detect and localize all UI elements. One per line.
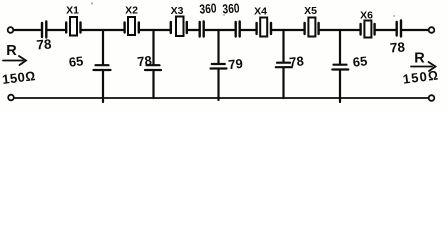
svg-text:X5: X5 [304, 5, 317, 17]
shunt capacitor 79pF (C6) [211, 64, 227, 69]
wire: C3 down to ground rail [152, 71, 154, 98]
svg-text:R: R [414, 51, 425, 67]
wire: C5 to X4 [241, 29, 255, 31]
capacitor C4 360pF (series) [200, 22, 204, 37]
capacitor C9 78pF (series, right) [397, 21, 401, 37]
ground rail wire (bottom) [14, 97, 428, 99]
crystal X1 [66, 17, 80, 36]
svg-text:X1: X1 [66, 5, 79, 17]
source resistance annotation R 150 ohm (left) [1, 43, 36, 87]
scan specks [91, 3, 395, 17]
svg-text:360: 360 [199, 0, 217, 16]
ground terminal (right, bottom) [429, 95, 435, 101]
wire: C1 to X1 [48, 29, 65, 31]
wire: X1 to X2 (junction A at x=103) [82, 29, 123, 31]
svg-text:150Ω: 150Ω [1, 68, 36, 87]
wire: X5 to X6 (junction E at x=340) [320, 29, 359, 31]
wire: junction D down to C7 shunt [282, 30, 284, 62]
wire: junction A down to C2 shunt [102, 30, 104, 64]
svg-text:X3: X3 [171, 5, 184, 17]
wire: X6 to C9 [376, 29, 395, 31]
shunt capacitor 78pF (C7) [276, 63, 292, 67]
crystal X2 [125, 17, 139, 35]
svg-text:R: R [6, 43, 17, 59]
svg-text:78: 78 [389, 39, 406, 55]
svg-text:X2: X2 [125, 5, 138, 17]
ground terminal (left, bottom) [8, 95, 14, 101]
wire: C6 down to ground rail [217, 70, 219, 101]
shunt capacitor 65pF (C8) [332, 65, 348, 70]
wire: C8 down to ground rail [339, 71, 341, 103]
wire: junction C down to C6 shunt [217, 30, 219, 63]
wire: C9 to output terminal [403, 29, 428, 31]
crystal X4 [257, 18, 271, 37]
shunt capacitor 65pF (C2) [94, 65, 111, 70]
svg-text:79: 79 [228, 56, 244, 72]
input terminal (left, top) [8, 27, 14, 33]
wire: junction E down to C8 shunt [339, 30, 341, 64]
wire: input terminal to C1 [14, 29, 40, 31]
svg-text:X4: X4 [254, 6, 267, 18]
shunt capacitor 78pF (C3) [145, 65, 161, 70]
wire: X3 to C4 [188, 29, 198, 31]
svg-text:78: 78 [36, 36, 53, 52]
svg-text:360: 360 [222, 0, 240, 16]
wire: X4 to X5 (junction D at x=283.5) [273, 29, 304, 31]
wire: C2 down to ground rail [102, 71, 104, 102]
output terminal (right, top) [429, 27, 435, 33]
svg-text:150Ω: 150Ω [402, 67, 440, 86]
svg-text:78: 78 [137, 53, 153, 69]
svg-text:X6: X6 [360, 10, 373, 22]
svg-text:65: 65 [68, 53, 84, 69]
wire: junction B down to C3 shunt [152, 30, 154, 64]
wire: X2 to X3 (junction B at x=153.5) [140, 29, 169, 31]
crystal X3 [171, 17, 187, 37]
load resistance annotation R 150 ohm (right) [402, 51, 440, 87]
crystal X5 [305, 18, 319, 37]
svg-text:65: 65 [352, 53, 368, 69]
svg-text:78: 78 [289, 53, 305, 69]
capacitor C5 360pF (series) [236, 22, 240, 37]
wire: C4 to C5 (junction C at x=218.5) [205, 29, 234, 31]
wire: C7 down to ground rail [282, 68, 284, 98]
crystal X6 [361, 21, 375, 38]
capacitor C1 78pF (series, left) [42, 22, 46, 38]
